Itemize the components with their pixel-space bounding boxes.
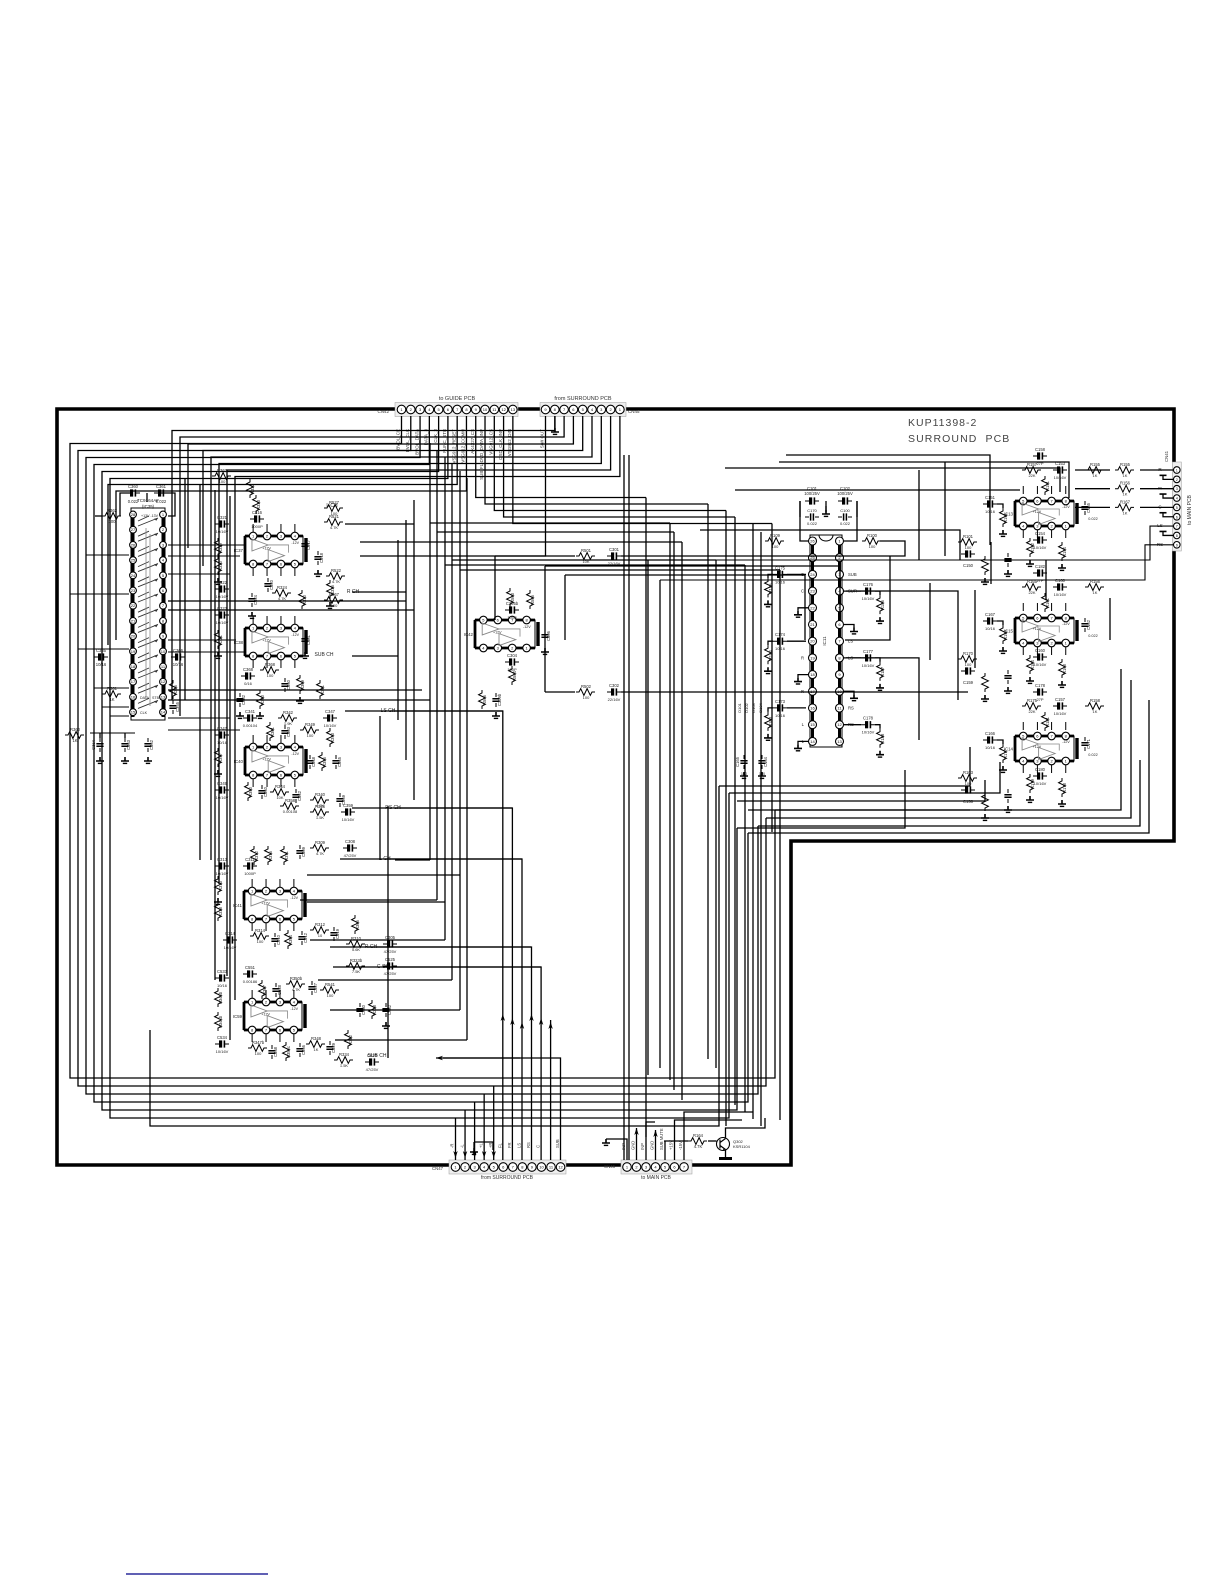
- wire: [110, 715, 129, 717]
- wire: [120, 493, 133, 516]
- svg-text:C166: C166: [985, 731, 996, 736]
- svg-text:+12V: +12V: [1033, 510, 1042, 514]
- svg-text:S/W OUT: S/W OUT: [540, 429, 545, 448]
- wire: [494, 556, 496, 620]
- wire CN46 pin 1 ground: [606, 1139, 627, 1160]
- svg-text:CN46: CN46: [604, 1164, 616, 1169]
- svg-text:C305b: C305b: [506, 601, 519, 606]
- svg-text:27P: 27P: [1036, 697, 1043, 702]
- capacitor C156 10/16: [961, 786, 975, 804]
- op-amp IC59: [233, 998, 305, 1034]
- svg-text:4.7K: 4.7K: [330, 525, 339, 530]
- capacitor C151: [983, 495, 997, 508]
- wire CN42 pin 5 bus: [102, 416, 737, 1110]
- wire: [252, 524, 254, 532]
- svg-text:R184: R184: [1030, 659, 1035, 670]
- svg-text:0.022: 0.022: [840, 521, 851, 526]
- wire: [99, 733, 101, 738]
- svg-text:C303: C303: [286, 726, 291, 737]
- svg-text:C341: C341: [245, 709, 256, 714]
- ground: [96, 757, 104, 763]
- wire: [266, 735, 268, 743]
- svg-text:R505: R505: [530, 594, 535, 605]
- svg-text:C: C: [801, 589, 804, 594]
- svg-text:0.022: 0.022: [1088, 517, 1098, 521]
- svg-text:SUB MUTE: SUB MUTE: [659, 1128, 664, 1150]
- resistor R305: [352, 915, 360, 934]
- wire: [352, 807, 512, 809]
- capacitor C532: [382, 1003, 392, 1017]
- title KUP11398-2: [908, 417, 1010, 445]
- resistor R344b: [215, 1012, 223, 1031]
- resistor R503: [507, 588, 515, 607]
- svg-text:VSG912_RESET: VSG912_RESET: [451, 429, 456, 464]
- svg-text:10: 10: [318, 933, 323, 938]
- capacitor C175 10/16: [773, 565, 787, 578]
- svg-text:C306: C306: [546, 630, 551, 641]
- capacitor C176 10/16V: [861, 582, 875, 595]
- wire bus horizontal: [460, 569, 780, 571]
- svg-text:-12V: -12V: [291, 633, 299, 637]
- svg-text:1K: 1K: [1123, 492, 1128, 497]
- resistor R358: [280, 798, 299, 809]
- capacitor C341: [243, 709, 257, 722]
- ground: [725, 1150, 727, 1158]
- wire bus vertical: [715, 560, 717, 1068]
- capacitor C551: [243, 965, 257, 978]
- wire CN42 pin 6 bus: [110, 416, 729, 1118]
- IC IC11 surround DSP: [809, 535, 844, 747]
- svg-text:9: 9: [1176, 543, 1178, 547]
- svg-text:R347b: R347b: [252, 1040, 265, 1045]
- wire CN47 pin 1: [455, 1118, 457, 1160]
- wire: [1022, 486, 1024, 494]
- capacitor C321: [215, 515, 229, 528]
- wire CN47 pin 7: [395, 808, 512, 1160]
- svg-text:12: 12: [558, 1165, 563, 1170]
- wire: [737, 780, 985, 801]
- ground: [382, 1022, 390, 1028]
- wire: [659, 580, 661, 1068]
- capacitor C340: [258, 785, 268, 799]
- svg-text:100: 100: [327, 993, 334, 998]
- ground at IC11 right pin: [844, 625, 854, 628]
- svg-text:R103: R103: [963, 770, 974, 775]
- capacitor C530: [356, 1003, 366, 1017]
- wire bus horizontal: [445, 564, 745, 566]
- wire: [168, 600, 406, 602]
- capacitor C309b: [492, 693, 502, 707]
- ground: [326, 602, 334, 608]
- svg-text:12: 12: [501, 407, 506, 412]
- svg-text:FUNC_STB: FUNC_STB: [442, 429, 447, 453]
- svg-text:to GUIDE PCB: to GUIDE PCB: [439, 396, 476, 402]
- svg-text:C348: C348: [311, 756, 316, 767]
- ground: [764, 667, 772, 673]
- wire bus vertical: [779, 570, 781, 1120]
- capacitor C304: [505, 653, 519, 666]
- svg-text:12: 12: [837, 722, 842, 727]
- wire: [95, 515, 102, 517]
- svg-text:100/25V: 100/25V: [837, 491, 853, 496]
- wire CN42 pin 11: [494, 416, 726, 511]
- op-amp IC13: [1004, 497, 1077, 530]
- wire bus horizontal: [360, 541, 682, 543]
- wire: [1036, 722, 1038, 730]
- capacitor C158 27P: [1033, 447, 1047, 460]
- capacitor C368: [241, 667, 255, 680]
- svg-text:R506: R506: [482, 694, 487, 705]
- svg-text:R191: R191: [1003, 512, 1008, 523]
- capacitor C313: [215, 857, 229, 870]
- svg-text:from SURROUND PCB: from SURROUND PCB: [554, 396, 611, 402]
- svg-text:RS: RS: [526, 1142, 531, 1148]
- wire: [293, 879, 295, 887]
- svg-text:22/16V: 22/16V: [608, 697, 621, 702]
- svg-text:10/16: 10/16: [217, 740, 228, 745]
- wire: [340, 858, 522, 860]
- wire: [768, 574, 773, 578]
- capacitor C316: [250, 510, 264, 523]
- svg-text:INP: INP: [640, 1143, 645, 1150]
- svg-text:C309b: C309b: [497, 693, 502, 706]
- wire: [726, 1118, 766, 1138]
- svg-text:0.022: 0.022: [1088, 753, 1098, 757]
- wire: [843, 657, 861, 659]
- capacitor C359: [341, 803, 355, 816]
- wire: [86, 554, 129, 556]
- resistor R157 100: [1022, 462, 1041, 473]
- svg-text:C319: C319: [335, 928, 340, 939]
- wire bus horizontal: [430, 522, 670, 524]
- wire: [974, 590, 976, 668]
- wire: [1065, 486, 1067, 494]
- svg-text:R305: R305: [355, 919, 360, 930]
- svg-text:C164: C164: [763, 756, 768, 767]
- svg-text:100P: 100P: [507, 615, 517, 620]
- svg-text:R186: R186: [880, 599, 885, 610]
- resistor R521: [324, 514, 343, 525]
- wire: [1051, 603, 1053, 611]
- wire CN46 pin 4: [655, 1130, 657, 1160]
- wire CN45 pin 1: [235, 416, 620, 1000]
- ground: [301, 652, 309, 658]
- svg-text:DATA: DATA: [140, 696, 150, 700]
- svg-text:C176: C176: [863, 582, 874, 587]
- wire: [621, 691, 968, 693]
- svg-text:22: 22: [810, 605, 815, 610]
- svg-text:10/16V: 10/16V: [1034, 545, 1047, 550]
- resistor R170b: [982, 673, 989, 692]
- board outline border: [57, 409, 1174, 1165]
- resistor R330: [215, 556, 223, 575]
- wire: [564, 575, 566, 640]
- capacitor C317: [301, 538, 311, 552]
- wire: [737, 770, 905, 828]
- svg-text:C100: C100: [840, 508, 850, 513]
- svg-text:5.6K: 5.6K: [352, 947, 361, 952]
- svg-text:C154: C154: [1035, 531, 1046, 536]
- resistor R363: [212, 468, 231, 479]
- svg-text:10/16V: 10/16V: [862, 730, 875, 735]
- svg-text:C321: C321: [217, 515, 228, 520]
- capacitor C526: [365, 1053, 379, 1066]
- svg-text:C305: C305: [385, 935, 396, 940]
- svg-text:0.022: 0.022: [156, 499, 167, 504]
- wire: [545, 566, 840, 620]
- resistor R390: [257, 690, 265, 709]
- svg-text:R188: R188: [880, 733, 885, 744]
- svg-text:GND: GND: [650, 1141, 655, 1150]
- svg-text:C527: C527: [313, 982, 318, 993]
- capacitor C528: [272, 983, 282, 997]
- svg-text:C322: C322: [217, 580, 228, 585]
- wire: [565, 575, 805, 640]
- svg-text:3: 3: [1176, 487, 1178, 491]
- wire CN46 pin 5: [664, 1141, 666, 1160]
- op-amp IC42: [464, 616, 538, 652]
- svg-text:C: C: [536, 1145, 541, 1148]
- svg-text:RS: RS: [848, 705, 854, 710]
- svg-text:R504: R504: [512, 670, 517, 681]
- svg-text:R: R: [801, 655, 804, 660]
- svg-text:-12V: -12V: [290, 1007, 298, 1011]
- svg-text:-12V: -12V: [290, 896, 298, 900]
- wire: [466, 478, 468, 1040]
- svg-text:10/16: 10/16: [173, 662, 184, 667]
- capacitor C150b: [1004, 553, 1011, 567]
- ground: [764, 734, 772, 740]
- transistor Q302: [717, 1138, 751, 1151]
- svg-text:0.022: 0.022: [128, 499, 139, 504]
- svg-text:SUB: SUB: [848, 572, 857, 577]
- svg-text:10/16V: 10/16V: [1054, 711, 1067, 716]
- svg-text:+12V: +12V: [262, 638, 271, 642]
- capacitor C305b: [505, 601, 519, 614]
- svg-text:R168: R168: [1062, 663, 1067, 674]
- resistor R178 100K: [1059, 778, 1067, 797]
- svg-text:C308: C308: [345, 839, 356, 844]
- wire: [345, 523, 414, 525]
- wire: [90, 732, 135, 734]
- wire: [1051, 486, 1053, 494]
- capacitor C369: [336, 793, 346, 807]
- wire: [621, 541, 905, 556]
- capacitor C363: [121, 738, 131, 752]
- svg-text:C350: C350: [286, 679, 291, 690]
- resistor R349: [300, 722, 319, 733]
- wire: [647, 560, 649, 1075]
- svg-text:1000P: 1000P: [244, 871, 256, 876]
- resistor R100 100: [862, 533, 881, 544]
- capacitor C361 0.022: [154, 484, 168, 497]
- resistor R191 56K: [1000, 508, 1008, 527]
- resistor R343: [327, 728, 335, 747]
- wire: [1022, 722, 1024, 730]
- wire: [1036, 486, 1038, 494]
- wire: [846, 658, 919, 740]
- svg-text:100: 100: [267, 673, 274, 678]
- wire IC15 out to CN41 pin2: [1075, 488, 1110, 490]
- svg-text:18: 18: [131, 664, 136, 669]
- resistor R183: [765, 712, 773, 731]
- resistor R361 1K: [102, 686, 121, 697]
- ground: [999, 530, 1007, 536]
- capacitor C310: [271, 933, 281, 947]
- resistor R391: [317, 680, 325, 699]
- svg-text:+12V: +12V: [262, 546, 271, 550]
- capacitor C101 100/25V: [805, 497, 819, 504]
- wire bus vertical: [673, 532, 675, 1090]
- ground: [758, 772, 766, 778]
- svg-text:R152: R152: [1030, 542, 1035, 553]
- svg-text:R350c: R350c: [286, 1046, 291, 1058]
- wire: [251, 990, 253, 998]
- svg-text:100: 100: [869, 544, 876, 549]
- svg-text:C358: C358: [273, 1046, 278, 1057]
- svg-text:R330: R330: [218, 560, 223, 571]
- wire: [70, 593, 129, 595]
- svg-text:R347: R347: [218, 752, 223, 763]
- wire: [846, 591, 958, 700]
- wire: [825, 501, 827, 512]
- wire: [1022, 603, 1024, 611]
- resistor R170 100: [958, 651, 977, 662]
- wire: [266, 524, 268, 532]
- wire: [405, 520, 407, 760]
- resistor R185: [765, 578, 773, 597]
- wire: [300, 899, 437, 901]
- svg-text:C340: C340: [263, 786, 268, 797]
- svg-text:R158: R158: [1090, 698, 1101, 703]
- svg-text:R502: R502: [581, 684, 592, 689]
- svg-text:LS: LS: [517, 1143, 522, 1148]
- wire: [330, 1009, 460, 1011]
- wire bus vertical: [744, 565, 746, 1112]
- capacitor C306: [541, 629, 551, 643]
- svg-text:7.5K: 7.5K: [352, 969, 361, 974]
- svg-text:100: 100: [255, 1051, 262, 1056]
- svg-text:4.7K: 4.7K: [316, 851, 325, 856]
- wire CN42 pin 3 bus: [86, 416, 758, 1094]
- arrow SUB CH: [436, 1056, 443, 1060]
- svg-text:SUB CH: SUB CH: [315, 652, 334, 658]
- resistor R177 56K: [1000, 744, 1008, 763]
- wire bus R502 line: [545, 691, 575, 693]
- svg-text:13: 13: [161, 694, 166, 699]
- capacitor C323: [215, 606, 229, 619]
- ground: [1026, 677, 1034, 683]
- wire: [1065, 603, 1067, 611]
- ground: [1058, 564, 1066, 570]
- svg-text:1: 1: [1176, 469, 1178, 473]
- wire: [787, 573, 806, 575]
- capacitor C167: [983, 612, 997, 625]
- op-amp IC14: [1004, 732, 1077, 765]
- resistor R505: [527, 590, 535, 609]
- svg-text:C157: C157: [1055, 697, 1066, 702]
- ground: [214, 770, 222, 776]
- svg-text:C313: C313: [217, 857, 228, 862]
- svg-text:C347: C347: [325, 709, 336, 714]
- svg-text:R151: R151: [1045, 480, 1050, 491]
- connector CN41 to MAIN PCB: [1164, 450, 1193, 551]
- capacitor C177 10/16V: [861, 649, 875, 662]
- capacitor C153: [1053, 461, 1067, 474]
- svg-text:R156: R156: [1120, 481, 1131, 486]
- wire: [146, 493, 148, 502]
- resistor R309: [310, 840, 329, 851]
- svg-text:R350b: R350b: [290, 976, 303, 981]
- svg-text:100: 100: [965, 545, 972, 550]
- wire: [708, 1140, 717, 1142]
- svg-text:C526: C526: [367, 1053, 378, 1058]
- svg-text:C158: C158: [1035, 447, 1046, 452]
- svg-text:R541: R541: [325, 982, 336, 987]
- svg-text:26: 26: [810, 539, 815, 544]
- svg-text:-12V: -12V: [291, 752, 299, 756]
- svg-text:1.5K: 1.5K: [340, 1063, 349, 1068]
- wire: [161, 493, 175, 516]
- wire: [768, 641, 773, 645]
- svg-text:R164: R164: [693, 1133, 704, 1138]
- svg-text:R155: R155: [1090, 462, 1101, 467]
- wire: [266, 616, 268, 624]
- capacitor C342: [292, 789, 302, 803]
- wire: [294, 616, 296, 624]
- wire: [168, 609, 414, 611]
- svg-text:from SURROUND PCB: from SURROUND PCB: [481, 1175, 534, 1181]
- wire bus horizontal: [437, 531, 674, 533]
- svg-text:10K: 10K: [582, 559, 589, 564]
- capacitor C319: [330, 927, 340, 941]
- wire: [252, 735, 254, 743]
- resistor R347: [215, 748, 223, 767]
- wire CN42 pin 2 bus: [78, 416, 766, 1086]
- resistor R331: [215, 630, 223, 649]
- wire bus vertical: [707, 504, 709, 1059]
- wire: [333, 966, 541, 968]
- resistor R168 100K: [1059, 659, 1067, 678]
- wire CN45 pin 8: [172, 416, 555, 700]
- svg-text:21: 21: [131, 618, 136, 623]
- capacitor C350: [281, 678, 291, 692]
- wire: [875, 725, 880, 729]
- wire: [997, 621, 1003, 625]
- svg-text:-12V: -12V: [1062, 740, 1070, 744]
- resistor R312: [251, 846, 259, 865]
- resistor R179 22K: [1027, 774, 1035, 793]
- wire: [294, 524, 296, 532]
- svg-text:R320: R320: [302, 594, 307, 605]
- svg-text:10/16V: 10/16V: [342, 817, 355, 822]
- svg-text:C167: C167: [985, 612, 996, 617]
- svg-text:R358: R358: [285, 798, 296, 803]
- svg-text:12: 12: [161, 679, 166, 684]
- svg-text:C318: C318: [319, 552, 324, 563]
- capacitor C329: [326, 1041, 336, 1055]
- wire: [168, 651, 245, 653]
- capacitor C156b: [1004, 789, 1011, 803]
- svg-text:C381: C381: [306, 634, 311, 645]
- svg-text:-15V: -15V: [678, 1141, 683, 1150]
- svg-text:0.00108: 0.00108: [283, 809, 298, 814]
- svg-text:10/16V: 10/16V: [1054, 592, 1067, 597]
- capacitor C166: [983, 731, 997, 744]
- svg-text:BVOL_CLK: BVOL_CLK: [405, 429, 410, 452]
- svg-text:28: 28: [131, 512, 136, 517]
- svg-text:+12V: +12V: [261, 1012, 270, 1016]
